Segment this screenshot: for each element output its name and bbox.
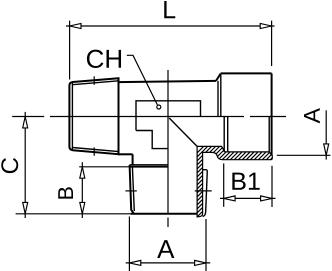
hex chamfer staircase [136,131,168,149]
label A right [304,108,320,123]
horizontal centerline [12,116,286,118]
label CH [87,50,121,68]
dimension A bottom line [126,262,211,264]
dimension B line [81,162,83,218]
label A bottom [232,173,259,190]
vertical axis centerline [167,70,169,227]
hex bottom edge [118,153,133,155]
hex flat top line [136,101,201,131]
dimension A bottom arrow right [195,260,206,265]
branch port shoulder line b [130,166,169,168]
left port thread root bottom [72,148,118,152]
hatch region outline [197,146,272,216]
internal cone diagonal [169,118,197,146]
dimension A right extension [277,154,331,156]
dimension B reference line [79,166,129,168]
branch port outer edge left [130,165,134,214]
hatch fill: sectioned walls [126,144,318,224]
hex/right-port junction line a [217,81,219,117]
left port thread tick bottom [93,147,95,155]
hex-to-branch vertical [132,154,134,165]
left male port outline [69,78,118,154]
dimension C arrow down [23,202,28,213]
right port end face lower outer [271,117,273,156]
dimension B1 extension right [271,166,273,207]
dimension B arrow up [80,167,85,178]
label B [58,187,73,198]
right port end face lower chamfer [268,117,270,152]
dimension C line [24,112,26,218]
branch port tick left [125,190,136,192]
leader CH [127,55,158,105]
leader CH dot [157,105,161,109]
dimension A bottom arrow left [129,260,140,265]
left port end chamfer line [71,83,73,150]
dimension L line [66,25,275,27]
dimension B arrow down [80,202,85,213]
dimension A bottom extension right [205,219,207,271]
left port thread root top [72,81,118,85]
branch port thread crest right (section) [203,170,208,217]
shoulder step diagonal [216,74,221,81]
dimension L arrow right [260,24,271,29]
branch port end line [131,213,197,215]
label C [1,158,18,173]
dimension A right arrow [324,144,329,155]
dimension C arrow up [23,117,28,128]
bottom reference line [16,213,131,215]
dimension L arrow left [70,24,81,29]
dimension L extension right [271,21,273,66]
dimension A bottom extension left [128,217,130,271]
dimension B1 line [220,197,276,199]
female thread end line b [227,117,229,152]
dimension B1 extension left [223,163,225,206]
hex top edge [119,81,217,82]
branch port shoulder line a [130,164,169,166]
dimension A right line [325,110,327,159]
dimension L extension left [69,21,71,80]
branch port thread root left [132,167,134,211]
label L [164,1,175,18]
label B1 [157,240,174,258]
dimension B1 arrow left [224,196,235,201]
branch port tick right [195,190,212,192]
left port thread tick top [93,76,95,85]
right port end face (upper) [271,73,273,116]
female thread end line a [223,117,225,152]
hex/right-port junction line b [220,74,222,117]
dimension B1 arrow right [261,196,272,201]
right port top edge [221,72,272,74]
